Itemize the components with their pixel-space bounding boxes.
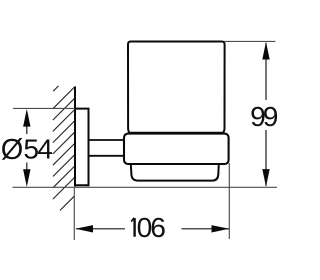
dim Ø54 shaft lower + arrow down — [26, 163, 28, 172]
wall face line — [74, 86, 76, 186]
glass upper part — [128, 42, 225, 133]
dim 99 line lower segment — [265, 130, 267, 186]
mounting plate (escutcheon, side view) — [75, 109, 89, 186]
svg-text:9: 9 — [263, 100, 279, 132]
dim 106 line left segment — [76, 228, 125, 230]
dim 106 arrow left — [75, 225, 93, 232]
dim 99 line upper segment — [265, 43, 267, 100]
extension line below wall (106 left) — [73, 188, 75, 240]
glass lower part — [131, 164, 219, 181]
arm top line — [89, 139, 126, 141]
wall hatching — [53, 86, 75, 210]
svg-text:4: 4 — [37, 133, 53, 165]
dim 99 arrow up — [262, 42, 269, 60]
extension line Ø54 top — [13, 107, 75, 109]
dim 106 line right segment — [182, 228, 230, 230]
arm bottom line — [89, 155, 126, 157]
dim Ø54 shaft upper + arrow up — [26, 125, 28, 134]
dim 99 arrow down — [262, 169, 269, 187]
extension line right of holder (106 right) — [228, 163, 230, 239]
svg-text:6: 6 — [150, 211, 166, 243]
holder ring — [124, 134, 229, 164]
ground line / bottom extension line — [13, 186, 278, 188]
svg-text:Ø: Ø — [1, 134, 24, 166]
extension line top (glass top to 99 dim) — [224, 40, 275, 42]
dim 106 arrow right — [212, 225, 230, 232]
label 106 — [131, 218, 134, 237]
